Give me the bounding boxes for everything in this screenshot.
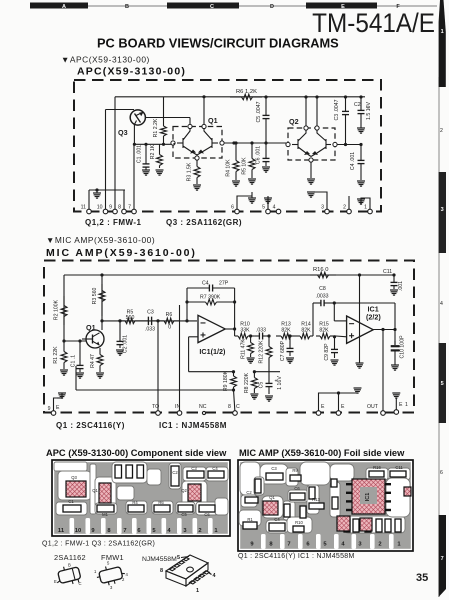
svg-text:2: 2 (378, 542, 381, 548)
svg-text:5: 5 (177, 555, 180, 561)
svg-text:82K: 82K (301, 328, 311, 334)
svg-text:R9 180K: R9 180K (223, 370, 229, 391)
svg-text:7: 7 (287, 542, 290, 548)
svg-text:.0033: .0033 (316, 294, 329, 300)
svg-text:R1: R1 (247, 517, 253, 522)
svg-text:560: 560 (126, 315, 135, 321)
svg-text:IC1(1/2): IC1(1/2) (199, 347, 226, 356)
svg-text:(2/2): (2/2) (366, 313, 381, 322)
svg-text:4: 4 (440, 301, 443, 307)
svg-text:IC1: IC1 (365, 493, 371, 502)
svg-text:E: E (56, 405, 60, 411)
svg-text:R2 100K: R2 100K (54, 299, 60, 320)
svg-text:E: E (321, 404, 325, 410)
svg-text:E: E (399, 402, 403, 408)
svg-text:IN: IN (175, 404, 180, 410)
svg-text:7: 7 (123, 528, 126, 534)
svg-text:C10 100P: C10 100P (400, 335, 406, 359)
svg-text:R12 220K: R12 220K (259, 340, 265, 364)
svg-text:Q2: Q2 (289, 117, 299, 126)
svg-text:35: 35 (416, 572, 428, 584)
svg-text:C: C (79, 581, 82, 586)
svg-text:C3: C3 (271, 466, 277, 471)
svg-text:C2 .001: C2 .001 (123, 335, 129, 353)
svg-text:IC1 : NJM4558M: IC1 : NJM4558M (159, 421, 227, 430)
svg-text:R11 47K: R11 47K (241, 339, 247, 359)
svg-text:R1 2.2K: R1 2.2K (153, 118, 159, 137)
svg-text:C9 82P: C9 82P (324, 343, 330, 361)
svg-text:NC: NC (199, 404, 207, 410)
svg-text:R6: R6 (166, 312, 173, 318)
svg-text:R7 390K: R7 390K (200, 295, 221, 301)
svg-text:5: 5 (262, 204, 265, 210)
svg-text:Q1 : 2SC4116(Y): Q1 : 2SC4116(Y) (56, 421, 125, 430)
svg-text:C7 680P: C7 680P (280, 340, 286, 361)
svg-text:6: 6 (440, 470, 443, 476)
svg-text:C8: C8 (319, 286, 326, 292)
svg-text:R6 1.2K: R6 1.2K (236, 89, 257, 95)
svg-text:APC(X59-3130-00): APC(X59-3130-00) (77, 66, 186, 78)
svg-text:2: 2 (343, 204, 346, 210)
svg-text:R4 10K: R4 10K (226, 159, 232, 177)
svg-text:6: 6 (231, 204, 234, 210)
svg-text:C1: C1 (68, 499, 74, 504)
svg-text:11: 11 (81, 204, 86, 210)
svg-text:1: 1 (441, 29, 444, 35)
svg-text:C6: C6 (204, 512, 210, 517)
svg-text:C11: C11 (383, 269, 392, 275)
svg-text:E: E (341, 404, 345, 410)
svg-text:R4: R4 (132, 500, 138, 505)
svg-text:82K: 82K (319, 328, 329, 334)
svg-text:C2: C2 (354, 102, 361, 108)
svg-text:MIC AMP(X59-3610-00): MIC AMP(X59-3610-00) (46, 247, 197, 259)
svg-text:C3: C3 (147, 310, 154, 316)
svg-text:MIC AMP (X59-3610-00) Foil si: MIC AMP (X59-3610-00) Foil side view (239, 448, 405, 458)
svg-text:1: 1 (364, 204, 367, 210)
svg-text:C4 .001: C4 .001 (350, 152, 356, 170)
svg-text:C6: C6 (294, 486, 300, 491)
svg-text:B: B (68, 563, 71, 568)
svg-text:4: 4 (273, 204, 276, 210)
svg-text:0: 0 (168, 325, 171, 331)
svg-text:NJM4558M: NJM4558M (142, 556, 177, 563)
svg-text:Q1: Q1 (208, 116, 218, 125)
svg-text:2: 2 (440, 128, 443, 134)
svg-text:C2: C2 (246, 490, 252, 495)
svg-text:R5 10K: R5 10K (242, 157, 248, 175)
svg-text:7: 7 (128, 204, 131, 210)
svg-text:C5: C5 (259, 382, 265, 389)
svg-text:R4 47: R4 47 (90, 354, 96, 368)
svg-text:Q3: Q3 (71, 475, 77, 480)
svg-text:C5: C5 (181, 512, 187, 517)
svg-text:1: 1 (196, 588, 199, 594)
svg-text:R13: R13 (312, 497, 320, 502)
svg-text:C1 .001: C1 .001 (137, 145, 143, 163)
svg-text:C4: C4 (212, 466, 218, 471)
svg-text:1.5 10V: 1.5 10V (366, 102, 372, 120)
svg-text:10: 10 (75, 528, 81, 534)
svg-text:R16: R16 (373, 465, 381, 470)
svg-text:8: 8 (228, 404, 231, 410)
svg-text:R1 22K: R1 22K (53, 346, 59, 364)
svg-text:B: B (125, 4, 129, 10)
svg-text:C: C (236, 404, 240, 410)
svg-text:C6 .001: C6 .001 (256, 146, 262, 164)
svg-text:8: 8 (118, 204, 121, 210)
svg-text:Q1 : 2SC4116(Y) IC1 : NJM455: Q1 : 2SC4116(Y) IC1 : NJM4558M (238, 553, 355, 560)
svg-text:11: 11 (58, 528, 65, 534)
svg-text:C5 .0047: C5 .0047 (256, 101, 262, 122)
svg-text:R10: R10 (295, 520, 303, 525)
svg-text:.033: .033 (256, 328, 266, 334)
svg-text:C4: C4 (274, 517, 280, 522)
svg-text:2SA1162: 2SA1162 (54, 553, 86, 562)
svg-text:9: 9 (48, 406, 51, 412)
svg-text:Q1: Q1 (269, 495, 275, 500)
svg-text:FMW1: FMW1 (101, 553, 124, 562)
svg-text:R3 1.5K: R3 1.5K (187, 162, 193, 181)
svg-text:Q3: Q3 (118, 128, 128, 137)
svg-text:TO: TO (152, 404, 159, 410)
svg-text:D: D (270, 4, 274, 10)
svg-text:1 16V: 1 16V (277, 376, 283, 390)
svg-text:Q1,2 : FMW-1: Q1,2 : FMW-1 (85, 218, 142, 227)
svg-text:5: 5 (441, 381, 444, 387)
svg-text:C3: C3 (191, 466, 197, 471)
svg-text:PC BOARD VIEWS/CIRCUIT DIAGRAM: PC BOARD VIEWS/CIRCUIT DIAGRAMS (97, 36, 339, 51)
svg-text:R3 560: R3 560 (92, 288, 98, 305)
svg-text:1: 1 (405, 402, 408, 408)
svg-text:3: 3 (441, 207, 444, 213)
svg-text:APC (X59-3130-00) Component s: APC (X59-3130-00) Component side view (46, 448, 227, 458)
svg-text:C2: C2 (172, 470, 178, 475)
svg-text:TM-541A/E: TM-541A/E (312, 9, 435, 38)
svg-text:▼APC(X59-3130-00): ▼APC(X59-3130-00) (61, 55, 150, 65)
svg-text:Q3 : 2SA1162(GR): Q3 : 2SA1162(GR) (166, 218, 242, 227)
svg-text:C3 .0047: C3 .0047 (334, 99, 340, 120)
svg-text:A: A (62, 4, 66, 10)
svg-text:8: 8 (160, 568, 163, 574)
svg-text:R2 1K: R2 1K (150, 144, 156, 159)
svg-text:▼MIC AMP(X59-3610-00): ▼MIC AMP(X59-3610-00) (46, 235, 155, 245)
svg-text:.001: .001 (398, 281, 404, 291)
svg-text:Q1,2 : FMW-1 Q3 : 2SA1162(GR: Q1,2 : FMW-1 Q3 : 2SA1162(GR) (42, 541, 155, 548)
svg-text:R8 220K: R8 220K (244, 372, 250, 393)
svg-text:9: 9 (109, 204, 112, 210)
svg-text:C1 .1: C1 .1 (71, 355, 77, 368)
svg-text:2: 2 (198, 528, 201, 534)
svg-text:.033: .033 (145, 327, 155, 333)
svg-text:27P: 27P (219, 281, 229, 287)
svg-text:C11: C11 (395, 465, 403, 470)
svg-text:C4: C4 (202, 281, 209, 287)
svg-text:Q1: Q1 (92, 488, 98, 493)
svg-text:M1: M1 (102, 512, 108, 517)
svg-text:R6: R6 (158, 500, 164, 505)
svg-text:C: C (210, 4, 214, 10)
svg-text:Q1: Q1 (86, 323, 96, 332)
svg-text:OUT: OUT (367, 404, 379, 410)
svg-text:Q2: Q2 (181, 488, 187, 493)
svg-text:3: 3 (321, 204, 324, 210)
svg-text:10: 10 (97, 204, 103, 210)
svg-text:E: E (54, 579, 57, 584)
svg-text:33K: 33K (240, 328, 250, 334)
svg-text:82K: 82K (281, 328, 291, 334)
svg-text:R9: R9 (292, 468, 298, 473)
svg-text:7: 7 (441, 556, 444, 562)
